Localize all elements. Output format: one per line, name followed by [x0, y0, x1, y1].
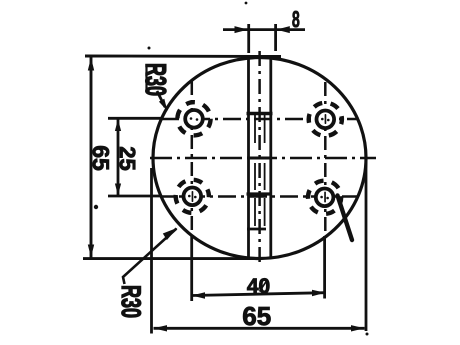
svg-text:25: 25 [115, 146, 140, 170]
svg-text:40: 40 [247, 275, 270, 298]
svg-text:R30: R30 [116, 285, 146, 318]
svg-text:65: 65 [88, 145, 114, 171]
svg-text:65: 65 [242, 301, 271, 331]
svg-text:8: 8 [292, 6, 300, 32]
svg-text:R30: R30 [140, 63, 172, 96]
